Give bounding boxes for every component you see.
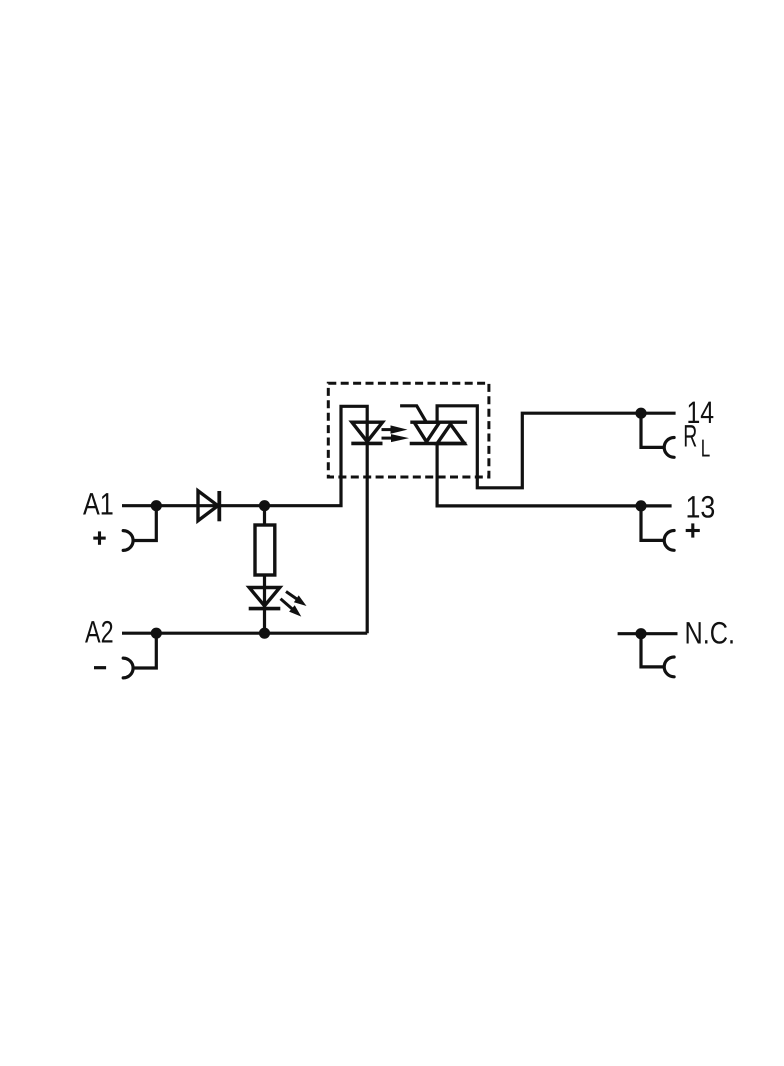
- svg-text:13: 13: [686, 490, 716, 525]
- phototriac: [410, 422, 467, 443]
- label RL load resistor: [683, 419, 710, 463]
- node 14: [635, 408, 646, 419]
- label A2: [85, 615, 114, 650]
- svg-text:N.C.: N.C.: [685, 616, 736, 651]
- terminal clamp 14: [641, 413, 674, 457]
- wire A1 to optocoupler LED anode: [122, 406, 367, 633]
- svg-text:A1: A1: [83, 486, 114, 521]
- wire N.C. stub: [618, 632, 678, 635]
- label A1: [83, 486, 114, 521]
- resistor R1: [255, 525, 275, 575]
- terminal clamp A2: [123, 633, 156, 678]
- LED indicator: [249, 588, 281, 609]
- terminal clamp A1: [123, 506, 156, 551]
- svg-text:L: L: [701, 436, 711, 463]
- wire phototriac MT1 to terminal 13: [437, 444, 671, 506]
- light coupling arrows: [382, 425, 410, 442]
- label N.C.: [685, 616, 736, 651]
- diode D1: [198, 491, 219, 522]
- wire phototriac MT2 to terminal 14: [437, 406, 675, 488]
- terminal clamp 13: [641, 506, 674, 550]
- svg-text:A2: A2: [85, 615, 114, 650]
- label 13: [686, 490, 716, 525]
- junction LED cathode to A2: [259, 628, 270, 639]
- node 13: [635, 500, 646, 511]
- opto LED: [351, 422, 382, 443]
- label 14: [687, 395, 715, 430]
- optocoupler dashed box: [328, 383, 489, 477]
- svg-text:R: R: [683, 419, 697, 454]
- wire A2: [122, 632, 367, 635]
- junction A1 terminal: [151, 500, 162, 511]
- polarity + at 13: [686, 523, 700, 537]
- junction A2 terminal: [151, 628, 162, 639]
- node N.C.: [635, 628, 646, 639]
- phototriac gate: [400, 406, 426, 422]
- LED light emission arrows: [281, 592, 307, 617]
- polarity - at A2: [94, 666, 106, 669]
- polarity + at A1: [93, 531, 105, 544]
- junction resistor branch: [259, 500, 270, 511]
- wire resistor branch vertical: [263, 506, 266, 634]
- terminal clamp N.C.: [641, 634, 674, 677]
